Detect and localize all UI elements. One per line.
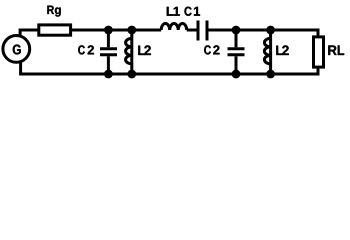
inductor L1 [161,24,187,31]
node dot bottom L2 second [266,70,275,79]
node dot top C2 first [104,26,113,35]
label RL - L [338,45,344,55]
inductor L2 (first) coil bumps [126,38,132,64]
capacitor C2 (second) plates [228,49,245,55]
wire bottom-left corner + stub from generator [21,62,318,75]
inductor L2 (second) vertical wire [269,29,272,76]
label L2 first - 2 [144,45,151,55]
label L1 - L [167,7,174,16]
wire C1 to RL corner [209,30,319,38]
label C2 second - 2 [213,45,219,54]
wire L1 to C1 [187,29,197,32]
label Rg - R [47,6,54,14]
wire top-left corner + stub to generator [20,30,38,37]
capacitor C2 (first) branch wires [107,29,110,76]
node dot top L2 first [127,26,136,35]
label L1 - 1 [174,7,180,16]
label C2 second - C [204,45,211,54]
label G (generator) [13,45,21,55]
capacitor C2 (second) branch wires [235,29,238,76]
label RL - R [328,45,336,55]
capacitor C2 (first) plates [100,49,117,55]
resistor Rg [39,25,71,35]
node dot top L2 second [266,26,275,35]
inductor L2 (first) vertical wire [130,29,133,76]
node dot bottom C2 first [104,70,113,79]
node dot bottom C2 second [232,70,241,79]
label L2 second - 2 [282,45,289,55]
label L2 first - L [138,46,144,55]
wire top rail: Rg to L1 [72,29,162,32]
label C1 - 1 [194,7,200,16]
label Rg - g [55,7,61,16]
node dot top C2 second [232,26,241,35]
node dot bottom L2 first [127,70,136,79]
resistor RL [314,37,324,67]
label C1 - C [184,7,191,16]
capacitor C1 [198,21,207,41]
label C2 first - 2 [88,45,94,54]
label C2 first - C [78,45,85,54]
label L2 second - L [276,46,282,55]
generator G circle [3,36,30,63]
inductor L2 (second) coil bumps [264,38,270,64]
